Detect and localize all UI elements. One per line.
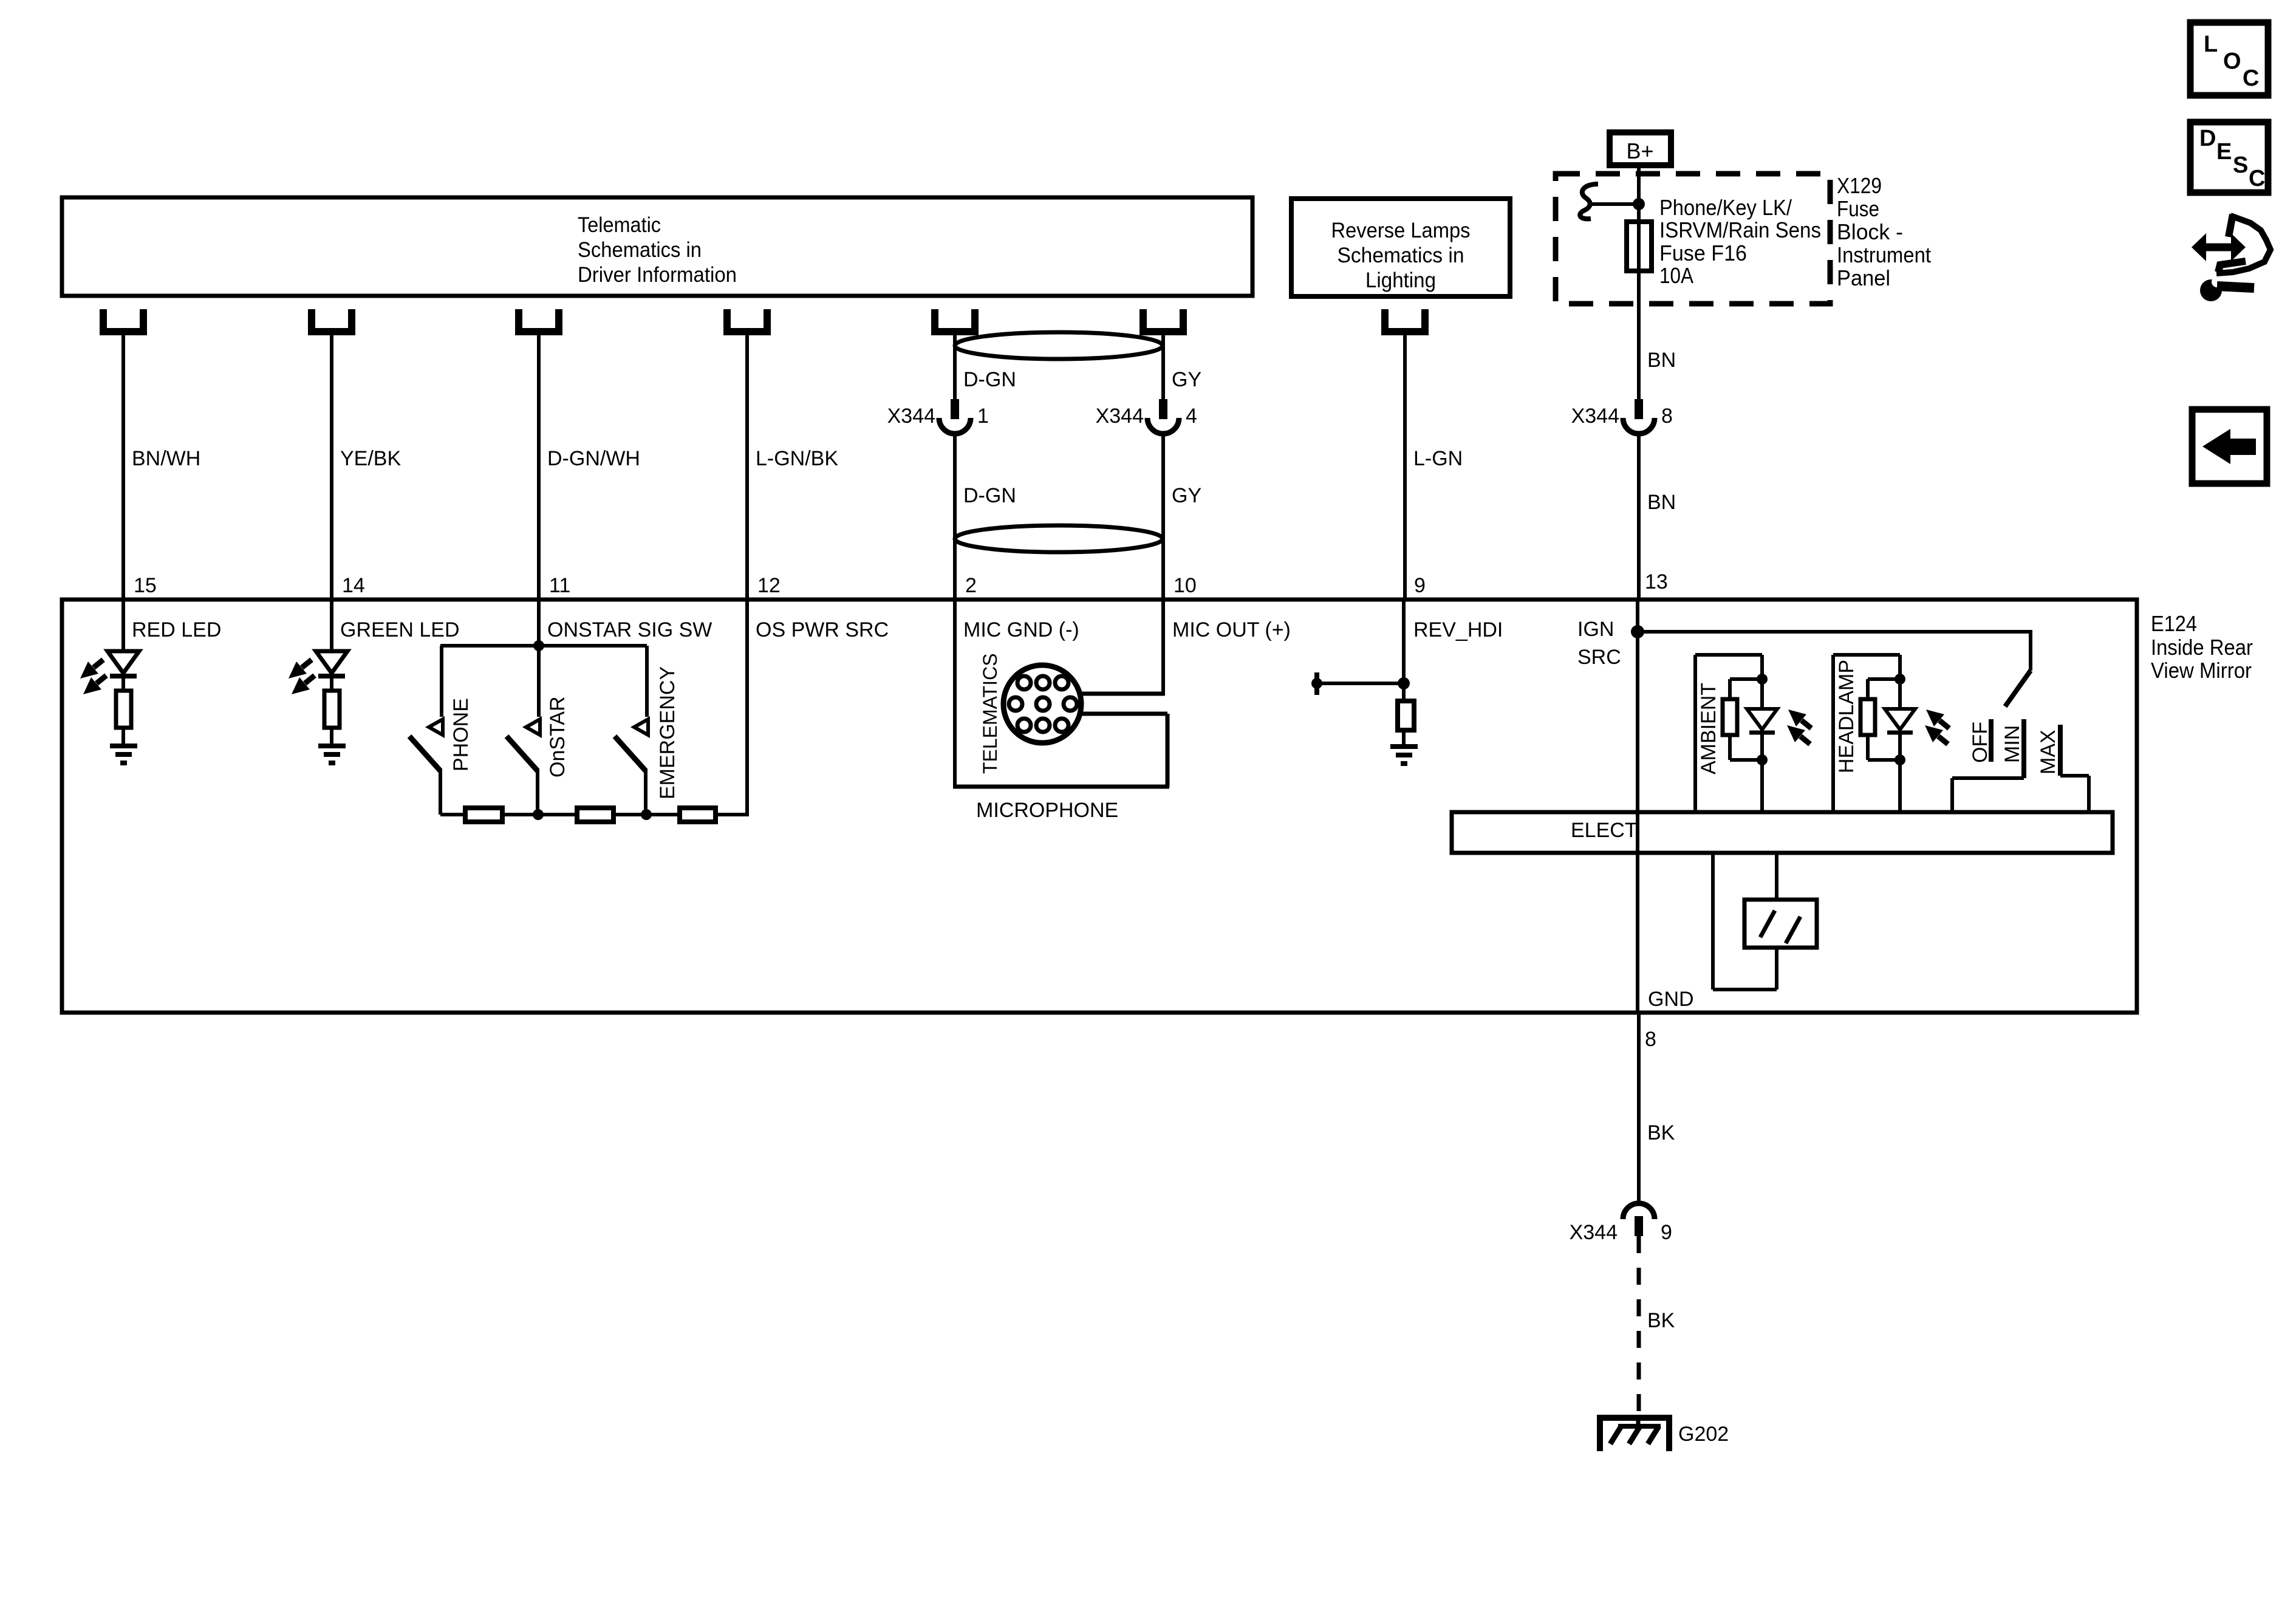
box: Telematic Schematics in Driver Information bbox=[62, 197, 1252, 296]
svg-text:10: 10 bbox=[1174, 574, 1197, 597]
red LED emission arrows bbox=[80, 660, 106, 694]
svg-text:E: E bbox=[2216, 139, 2232, 165]
junction rev_hdi bbox=[1398, 677, 1410, 689]
resistor ambient bbox=[1723, 679, 1762, 760]
wire BN upper bbox=[1637, 307, 1641, 399]
resistor phone bbox=[465, 808, 502, 822]
svg-text:X344: X344 bbox=[1570, 1221, 1618, 1244]
wire rev_hdi resistor to ground bbox=[1402, 730, 1406, 747]
ambient light arrows bbox=[1787, 709, 1811, 744]
svg-text:Inside Rear: Inside Rear bbox=[2151, 635, 2253, 660]
resistor onstar bbox=[577, 808, 613, 822]
svg-text:1: 1 bbox=[977, 405, 989, 428]
resistor rev_hdi bbox=[1398, 701, 1414, 730]
svg-text:ISRVM/Rain Sens: ISRVM/Rain Sens bbox=[1659, 217, 1821, 242]
svg-text:AMBIENT: AMBIENT bbox=[1697, 683, 1720, 774]
wire mic gnd left side bbox=[953, 601, 957, 788]
module box E124 Inside Rear View Mirror bbox=[62, 600, 2137, 1013]
green LED emission arrows bbox=[289, 660, 315, 694]
wire BN lower bbox=[1637, 434, 1641, 601]
photodiode assembly HEADLAMP bbox=[1833, 655, 1900, 814]
wire onstar sig to switch bus bbox=[537, 601, 541, 646]
svg-text:BK: BK bbox=[1647, 1121, 1675, 1144]
switch EMERGENCY bbox=[615, 646, 679, 815]
photodiode assembly AMBIENT bbox=[1695, 655, 1762, 814]
svg-text:ELECT: ELECT bbox=[1571, 819, 1638, 842]
svg-text:13: 13 bbox=[1645, 570, 1668, 593]
wire BN/WH pin 15 bbox=[121, 332, 125, 601]
svg-text:S: S bbox=[2233, 152, 2248, 178]
resistor headlamp bbox=[1860, 679, 1900, 760]
svg-text:X129: X129 bbox=[1837, 173, 1882, 198]
label X129 Fuse Block - Instrument Panel bbox=[1837, 173, 1931, 290]
svg-text:TELEMATICS: TELEMATICS bbox=[979, 653, 1001, 774]
svg-text:9: 9 bbox=[1414, 574, 1426, 597]
microphone outline bbox=[953, 694, 1169, 787]
svg-text:X344: X344 bbox=[1096, 405, 1144, 428]
wire rev_hdi bbox=[1402, 601, 1406, 701]
svg-text:OnSTAR: OnSTAR bbox=[546, 696, 569, 778]
connector clevis pin 10 bbox=[1143, 309, 1183, 332]
svg-text:B+: B+ bbox=[1626, 138, 1653, 163]
dimmer wiper bbox=[2005, 630, 2031, 706]
wire BK dashed bbox=[1637, 1236, 1641, 1415]
svg-text:8: 8 bbox=[1661, 405, 1673, 428]
svg-text:YE/BK: YE/BK bbox=[340, 447, 401, 470]
svg-text:9: 9 bbox=[1661, 1221, 1672, 1244]
svg-text:REV_HDI: REV_HDI bbox=[1413, 618, 1503, 641]
wire D-GN pin 2 lower bbox=[953, 434, 957, 601]
svg-text:SRC: SRC bbox=[1577, 646, 1621, 669]
connector clevis pin 15 bbox=[103, 309, 143, 332]
svg-text:L-GN/BK: L-GN/BK bbox=[756, 447, 838, 470]
wire L-GN reverse lamps bbox=[1403, 332, 1407, 601]
connector clevis pin 11 bbox=[519, 309, 559, 332]
svg-text:RED LED: RED LED bbox=[132, 618, 221, 641]
connector X344 pin 9 bbox=[1570, 1203, 1672, 1244]
wire YE/BK pin 14 bbox=[330, 332, 333, 601]
resistor emergency bbox=[680, 808, 716, 822]
wire BK upper bbox=[1637, 1013, 1641, 1203]
svg-text:MICROPHONE: MICROPHONE bbox=[976, 799, 1118, 822]
box: Reverse Lamps Schematics in Lighting bbox=[1291, 199, 1510, 296]
svg-text:L-GN: L-GN bbox=[1413, 447, 1463, 470]
svg-text:OFF: OFF bbox=[1969, 722, 1992, 763]
wire ign src vertical bbox=[1636, 601, 1639, 1011]
icon back arrow bbox=[2192, 409, 2267, 484]
svg-text:Telematic: Telematic bbox=[578, 213, 661, 237]
svg-text:11: 11 bbox=[549, 574, 570, 597]
junction ambient bottom bbox=[1757, 754, 1768, 765]
svg-text:GY: GY bbox=[1172, 484, 1201, 507]
svg-text:Reverse Lamps: Reverse Lamps bbox=[1331, 219, 1471, 242]
fuse F16 10A bbox=[1627, 222, 1652, 271]
svg-text:Lighting: Lighting bbox=[1365, 268, 1436, 292]
switch bottom bus bbox=[440, 813, 747, 816]
svg-text:Panel: Panel bbox=[1837, 265, 1890, 290]
svg-text:MIC GND (-): MIC GND (-) bbox=[963, 618, 1079, 641]
svg-text:D-GN/WH: D-GN/WH bbox=[547, 447, 640, 470]
junction fuse feed bbox=[1633, 198, 1645, 210]
fuse block X129 dashed box bbox=[1556, 174, 1830, 304]
resistor red LED bbox=[116, 691, 131, 728]
svg-text:EMERGENCY: EMERGENCY bbox=[656, 666, 679, 799]
svg-text:10A: 10A bbox=[1659, 263, 1693, 288]
svg-text:D-GN: D-GN bbox=[963, 368, 1016, 391]
icon navigation arrows and wrench bbox=[2192, 214, 2270, 301]
contact OFF bbox=[1969, 719, 1992, 763]
ign src branch wire bbox=[1638, 630, 2031, 634]
svg-text:X344: X344 bbox=[1571, 405, 1619, 428]
icon DESC bbox=[2190, 122, 2268, 193]
junction ambient top bbox=[1757, 674, 1768, 685]
junction onstar bottom bbox=[533, 809, 544, 820]
svg-text:BK: BK bbox=[1647, 1309, 1675, 1332]
svg-text:14: 14 bbox=[342, 574, 365, 597]
ground G202 bbox=[1600, 1418, 1669, 1451]
wire D-GN pin 2 upper bbox=[953, 332, 957, 399]
svg-text:D: D bbox=[2199, 126, 2216, 151]
mirror glass element loop bbox=[1713, 853, 1777, 990]
wire GY pin 10 lower bbox=[1161, 434, 1165, 601]
wire green LED to ground bbox=[330, 728, 333, 746]
label IGN SRC bbox=[1577, 618, 1621, 669]
ELECT bar bbox=[1452, 812, 2113, 853]
svg-text:PHONE: PHONE bbox=[449, 698, 473, 771]
svg-text:Instrument: Instrument bbox=[1837, 242, 1931, 267]
svg-text:E124: E124 bbox=[2151, 611, 2197, 636]
svg-text:Block -: Block - bbox=[1837, 219, 1903, 244]
twisted pair ellipse lower bbox=[955, 525, 1163, 552]
svg-text:MIN: MIN bbox=[2001, 725, 2024, 763]
rev_hdi stub wire bbox=[1311, 672, 1404, 695]
svg-text:MIC OUT (+): MIC OUT (+) bbox=[1172, 618, 1291, 641]
svg-text:HEADLAMP: HEADLAMP bbox=[1835, 660, 1858, 773]
junction emergency bottom bbox=[641, 809, 652, 820]
svg-text:L: L bbox=[2204, 32, 2218, 57]
ground green LED bbox=[318, 746, 346, 763]
svg-text:C: C bbox=[2243, 66, 2259, 91]
svg-text:C: C bbox=[2249, 166, 2265, 191]
svg-text:IGN: IGN bbox=[1577, 618, 1614, 641]
ground rev_hdi bbox=[1390, 747, 1418, 764]
label E124 Inside Rear View Mirror bbox=[2151, 611, 2253, 683]
svg-text:Fuse F16: Fuse F16 bbox=[1659, 241, 1747, 265]
svg-text:O: O bbox=[2223, 49, 2241, 74]
svg-text:D-GN: D-GN bbox=[963, 484, 1016, 507]
connector clevis pin 14 bbox=[312, 309, 352, 332]
connector X344 pin 8 bbox=[1571, 399, 1673, 434]
icon LOC bbox=[2190, 22, 2268, 95]
svg-text:2: 2 bbox=[965, 574, 977, 597]
wire os pwr src bbox=[745, 601, 749, 816]
svg-text:OS PWR SRC: OS PWR SRC bbox=[756, 618, 889, 641]
svg-text:G202: G202 bbox=[1678, 1423, 1729, 1446]
svg-text:Schematics in: Schematics in bbox=[1338, 244, 1464, 267]
twisted pair ellipse upper bbox=[955, 332, 1163, 359]
svg-text:15: 15 bbox=[134, 574, 157, 597]
contact MAX with pedestal bbox=[2037, 725, 2089, 814]
svg-text:GY: GY bbox=[1172, 368, 1201, 391]
svg-text:4: 4 bbox=[1186, 405, 1197, 428]
fuse pull hook bbox=[1580, 184, 1639, 219]
svg-text:8: 8 bbox=[1645, 1028, 1656, 1051]
red LED D1 bbox=[108, 601, 139, 691]
svg-text:GREEN LED: GREEN LED bbox=[340, 618, 460, 641]
svg-text:Fuse: Fuse bbox=[1837, 196, 1879, 221]
power symbol B+ bbox=[1610, 132, 1671, 165]
svg-text:GND: GND bbox=[1648, 988, 1694, 1011]
junction onstar top bbox=[533, 640, 544, 651]
ground red LED bbox=[110, 746, 137, 763]
junction headlamp bottom bbox=[1895, 754, 1905, 765]
resistor green LED bbox=[324, 691, 340, 728]
label fuse F16 bbox=[1659, 195, 1821, 288]
mirror glass element bbox=[1744, 900, 1817, 948]
svg-text:Schematics in: Schematics in bbox=[578, 238, 702, 262]
wire B+ to fuse bbox=[1637, 165, 1641, 307]
green LED D2 bbox=[316, 601, 347, 691]
svg-text:View Mirror: View Mirror bbox=[2151, 658, 2252, 683]
svg-text:Phone/Key LK/: Phone/Key LK/ bbox=[1659, 195, 1792, 220]
svg-text:X344: X344 bbox=[887, 405, 935, 428]
photodiode headlamp bbox=[1885, 709, 1915, 733]
headlamp light arrows bbox=[1925, 709, 1949, 744]
wire GY pin 10 upper bbox=[1161, 332, 1165, 399]
connector clevis pin 12 bbox=[727, 309, 767, 332]
contact MIN with pedestal bbox=[1952, 719, 2024, 814]
photodiode ambient bbox=[1747, 709, 1777, 733]
svg-text:BN: BN bbox=[1647, 349, 1676, 372]
wire D-GN/WH pin 11 bbox=[537, 332, 541, 601]
wire red LED to ground bbox=[121, 728, 125, 746]
connector clevis reverse lamps bbox=[1385, 309, 1425, 332]
microphone connector circle bbox=[1003, 665, 1081, 743]
connector clevis pin 2 bbox=[935, 309, 975, 332]
svg-text:BN: BN bbox=[1647, 491, 1676, 514]
switch top bus bbox=[440, 644, 647, 648]
wire mic out right side bbox=[1161, 601, 1165, 696]
svg-text:12: 12 bbox=[757, 574, 781, 597]
svg-text:MAX: MAX bbox=[2037, 730, 2060, 774]
svg-text:ONSTAR SIG SW: ONSTAR SIG SW bbox=[547, 618, 712, 641]
connector X344 pin 4 bbox=[1096, 399, 1197, 434]
connector X344 pin 1 bbox=[887, 399, 989, 434]
svg-text:Driver Information: Driver Information bbox=[578, 263, 737, 287]
junction headlamp top bbox=[1895, 674, 1905, 685]
switch OnSTAR bbox=[507, 646, 569, 815]
switch PHONE bbox=[409, 646, 473, 815]
wire L-GN/BK pin 12 bbox=[745, 332, 749, 601]
svg-text:BN/WH: BN/WH bbox=[132, 447, 200, 470]
junction ign src bbox=[1631, 625, 1644, 638]
